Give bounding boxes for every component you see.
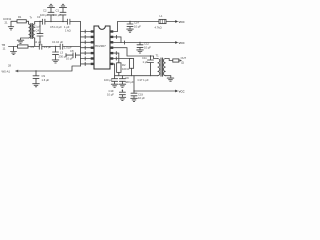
transformer T1 secondary winding	[163, 59, 165, 76]
svg-text:C2: C2	[43, 8, 47, 12]
resistor R3	[18, 45, 29, 48]
left pin bus	[80, 22, 82, 67]
ground at TB	[11, 47, 17, 55]
wire pin3R to VCC rail 2	[113, 41, 175, 44]
wire mid rail	[28, 38, 81, 47]
ground below C19	[131, 98, 138, 101]
node VCC rail junction x130	[129, 21, 130, 22]
svg-text:C12: C12	[144, 41, 149, 45]
wire top rail	[35, 22, 81, 25]
svg-text:1.0 μF: 1.0 μF	[44, 45, 52, 49]
arrow VCC mid	[175, 41, 178, 44]
ground below C20	[119, 97, 126, 100]
svg-text:1 μF: 1 μF	[64, 25, 70, 29]
wire R3b to bottom rail	[131, 68, 133, 75]
svg-text:WS-A1: WS-A1	[2, 69, 11, 73]
svg-text:C19: C19	[109, 89, 114, 93]
svg-text:4.7kΩ: 4.7kΩ	[155, 26, 162, 30]
capacitor C4 vertical	[39, 22, 41, 47]
capacitor C6 label	[64, 45, 72, 49]
capacitor C17 labels	[125, 76, 134, 84]
svg-text:1.6 μF: 1.6 μF	[42, 78, 50, 82]
arrow VCC top	[175, 20, 178, 23]
node mid rail junction x40	[39, 46, 40, 47]
wire stub pin5L with tick	[81, 52, 91, 55]
svg-text:R2: R2	[122, 63, 126, 67]
IC U1 left pins	[91, 30, 94, 65]
svg-text:1 kΩ: 1 kΩ	[65, 29, 71, 33]
transformer Tr secondary winding	[33, 24, 35, 38]
capacitor C9 labels	[42, 74, 50, 82]
node bottom cap junction	[122, 90, 123, 91]
ground below C16	[111, 84, 118, 87]
svg-text:OUT: OUT	[181, 56, 186, 60]
wire resistor to transformer	[26, 21, 28, 24]
capacitor C2 labels	[40, 8, 49, 16]
label C17	[138, 78, 149, 82]
svg-text:VCC: VCC	[179, 41, 186, 45]
capacitor C19 labels	[138, 92, 145, 100]
IC U1 label	[95, 44, 106, 48]
capacitor C11 labels	[142, 56, 148, 64]
label C16 bottom	[107, 89, 114, 97]
wire stub pin2L with tick	[81, 35, 91, 38]
svg-text:1 μF: 1 μF	[143, 60, 149, 64]
node mid rail junction x57	[55, 46, 56, 47]
capacitor C17	[119, 76, 125, 84]
capacitor C7b labels	[59, 51, 68, 59]
capacitor C14 labels	[134, 20, 141, 28]
wire R2 to bottom rail	[118, 72, 120, 75]
capacitor C8 labels	[66, 49, 74, 61]
wire pin2R bend down	[113, 35, 121, 42]
node top rail junction x40	[39, 21, 40, 22]
mid rail labels	[35, 40, 64, 44]
node top rail junction x51	[50, 21, 51, 22]
svg-text:10 μF: 10 μF	[144, 45, 151, 49]
capacitor C9	[33, 71, 39, 84]
wire TB to resistor	[9, 46, 18, 48]
ground below C9	[33, 84, 40, 87]
wire stub pin4L with tick	[81, 46, 91, 49]
capacitor C1 ground (up)	[60, 4, 67, 12]
wire third rail	[66, 54, 81, 57]
svg-text:100 μF: 100 μF	[125, 80, 134, 84]
wire stub pin3L with tick	[81, 41, 91, 44]
capacitor C5 (series, mid rail)	[39, 44, 42, 49]
ground below T1	[167, 78, 174, 81]
svg-text:C8: C8	[70, 49, 74, 53]
transformer T1 core	[161, 58, 163, 76]
svg-text:C1: C1	[56, 8, 60, 12]
svg-text:(2): (2)	[181, 61, 184, 65]
capacitor C16	[112, 76, 118, 84]
svg-text:100 Ω: 100 Ω	[122, 67, 129, 71]
capacitor C6 (series, mid rail)	[60, 44, 63, 49]
svg-text:11 μF: 11 μF	[34, 25, 41, 29]
output labels	[179, 59, 182, 61]
capacitor C11	[148, 56, 154, 76]
capacitor C12	[137, 43, 143, 50]
net SELECT label	[2, 63, 12, 73]
node rail2 junction x140	[139, 42, 140, 43]
svg-text:C11: C11	[142, 56, 147, 60]
capacitor C3 label	[37, 15, 41, 19]
wire pin1R to VCC rail	[113, 22, 175, 32]
svg-text:C5: C5	[31, 45, 35, 49]
resistor R2 labels	[122, 63, 129, 71]
svg-text:L3: L3	[60, 51, 63, 55]
capacitor C7b vertical with ground	[55, 47, 57, 60]
transformer Tr label	[30, 15, 33, 19]
svg-text:100 μF: 100 μF	[40, 13, 49, 17]
svg-text:C9: C9	[125, 76, 129, 80]
wire T1 secondary bottom to ground	[166, 76, 171, 78]
capacitor C16 labels	[104, 78, 113, 82]
resistor R1	[17, 20, 26, 23]
resistor R2	[117, 63, 121, 73]
svg-text:T1: T1	[156, 54, 160, 58]
transformer Tr core	[31, 24, 32, 39]
wire pin4R to T1 top	[113, 48, 157, 59]
svg-text:10 μF: 10 μF	[66, 57, 73, 61]
wire stub pin1L with tick	[81, 30, 91, 33]
wire pin5R to R2	[113, 52, 119, 63]
resistor R3b	[129, 59, 133, 69]
node SELECT junction x36	[35, 70, 36, 71]
node bottom VCC rail junction	[133, 90, 134, 91]
svg-text:R1: R1	[18, 15, 22, 19]
capacitor C8 (series, third rail)	[73, 53, 76, 58]
capacitor C14	[127, 22, 133, 30]
svg-text:100 μF: 100 μF	[104, 78, 113, 82]
capacitor C7 label	[50, 25, 71, 33]
IC U1 body	[94, 26, 110, 69]
inductor L1 labels	[155, 14, 163, 30]
ground below C14	[127, 29, 134, 32]
svg-text:11 μF: 11 μF	[35, 40, 42, 44]
wire T1 secondary top to output	[166, 59, 173, 61]
inductor L1	[159, 19, 166, 23]
capacitor C1	[60, 12, 66, 21]
wire transformer bottom-left to ground	[21, 38, 29, 40]
wire pin6R to R3b	[113, 57, 131, 60]
ground below C12	[137, 50, 144, 53]
wire pin7R down to cap bank	[113, 64, 114, 76]
capacitor C19	[131, 91, 137, 98]
svg-text:1.0 μF: 1.0 μF	[64, 45, 72, 49]
svg-text:C4: C4	[36, 28, 40, 32]
wire T1 primary rail down to VCC bottom rail	[133, 76, 135, 91]
svg-text:10 μF: 10 μF	[134, 24, 141, 28]
ground below C17	[119, 84, 126, 87]
svg-text:C17 1 μF: C17 1 μF	[138, 78, 149, 82]
capacitor C5 labels	[31, 45, 52, 49]
connector TB label	[2, 43, 6, 51]
arrow VCC bottom	[175, 90, 178, 93]
wire bottom rail to T1	[115, 75, 158, 77]
wire VCC bottom rail	[134, 90, 176, 92]
svg-text:Tr: Tr	[30, 15, 33, 19]
capacitor C20	[119, 90, 125, 97]
connector CON1 label	[3, 17, 12, 25]
svg-text:HF2907: HF2907	[95, 44, 106, 48]
capacitor C1 labels	[53, 8, 62, 16]
wire stub pin7L with tick	[81, 62, 91, 65]
svg-text:C9: C9	[42, 74, 46, 78]
svg-text:C1 10 μF: C1 10 μF	[52, 40, 63, 44]
resistor R1 label	[18, 15, 22, 19]
svg-text:C14: C14	[134, 20, 139, 24]
resistor R4 output	[173, 59, 179, 62]
capacitor C2	[48, 12, 54, 21]
transformer T1 primary winding	[158, 59, 160, 76]
capacitor C3 (series, top rail)	[42, 19, 45, 24]
IC U1 right pins	[110, 30, 113, 65]
capacitor C2 ground (up)	[48, 4, 55, 12]
wire SELECT with left arrow	[18, 66, 81, 71]
capacitor C4 labels	[34, 25, 41, 33]
node top rail junction x63	[62, 21, 63, 22]
capacitor C12 labels	[144, 41, 151, 49]
node bottom rail junction C11	[150, 55, 151, 56]
connector CON1 pins	[8, 21, 17, 30]
capacitor C7 (series, top rail)	[67, 19, 70, 24]
transformer T1 label	[156, 54, 160, 58]
ground below transformer	[17, 40, 24, 43]
svg-text:100 μF: 100 μF	[53, 13, 62, 17]
wire stub pin6L with tick	[81, 57, 91, 60]
svg-text:10 μF: 10 μF	[107, 93, 114, 97]
transformer Tr primary winding	[29, 24, 31, 38]
svg-text:10 μF: 10 μF	[138, 96, 145, 100]
svg-text:VCC: VCC	[179, 90, 186, 94]
svg-text:VCC: VCC	[179, 20, 186, 24]
svg-text:11: 11	[3, 47, 6, 51]
svg-text:C5 1.0 μF: C5 1.0 μF	[50, 25, 62, 29]
svg-text:C19: C19	[138, 92, 143, 96]
svg-text:21: 21	[5, 21, 9, 25]
